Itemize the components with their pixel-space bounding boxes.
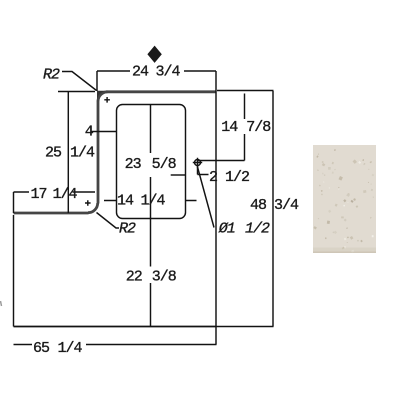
corner radius bottom-left (thick) [88,203,98,213]
radius center mark top [104,97,110,103]
svg-text:14: 14 [117,192,134,209]
svg-text:5/8: 5/8 [152,156,177,173]
svg-text:1/2: 1/2 [245,220,270,237]
svg-text:14: 14 [221,119,238,136]
corner radius top-left (thick) [98,92,108,102]
dim 14 1/4 ticks [104,200,197,202]
dim 2 1/2 [198,166,209,175]
corner wedge top-left [97,91,107,101]
dim 25 1/4 extension [58,92,95,214]
leader R2 top [62,72,97,91]
svg-text:24: 24 [132,64,149,81]
dim 4 [92,131,117,133]
svg-text:7/8: 7/8 [246,119,271,136]
svg-text:2: 2 [209,169,217,186]
svg-text:4: 4 [85,123,94,140]
svg-text:1/4: 1/4 [141,192,166,209]
svg-text:65: 65 [33,340,50,357]
dim 24 3/4 [97,71,216,91]
bottom extension [216,326,274,328]
svg-text:3/8: 3/8 [152,269,177,286]
svg-text:1/4: 1/4 [58,340,83,357]
svg-text:48: 48 [250,197,267,214]
svg-text:22: 22 [126,269,142,286]
svg-text:17: 17 [31,186,47,203]
dim 48 3/4 [272,91,274,327]
svg-text:Ø1: Ø1 [218,220,235,237]
svg-text:1/4: 1/4 [53,186,78,203]
sink cutout [117,105,186,219]
sink centerline [150,105,152,327]
svg-text:1/2: 1/2 [225,169,249,186]
faucet hole [195,160,201,166]
countertop step edge (thick) [14,212,89,215]
svg-text:3/4: 3/4 [156,64,181,81]
bottom edge [14,326,217,328]
svg-text:3/4: 3/4 [274,197,299,214]
left lower edge [13,215,15,327]
right edge [215,71,217,345]
leader diameter 1 1/2 [198,167,215,228]
radius center mark bottom [85,200,91,206]
material swatch [313,145,376,253]
sink right tick [171,174,185,176]
dim 65 1/4 [14,344,217,346]
dim 14 7/8 [198,91,274,161]
leader R2 bottom [97,213,120,229]
svg-text:25: 25 [45,144,62,161]
countertop top edge (thick) [106,90,217,93]
diamond marker [147,46,161,63]
svg-text:23: 23 [125,156,142,173]
edge smudge [1,301,2,306]
svg-text:R2: R2 [119,220,136,237]
countertop left edge (thick) [97,101,100,204]
svg-text:R2: R2 [43,66,60,83]
dim 17 1/4 [14,192,96,213]
svg-text:1/4: 1/4 [70,144,95,161]
